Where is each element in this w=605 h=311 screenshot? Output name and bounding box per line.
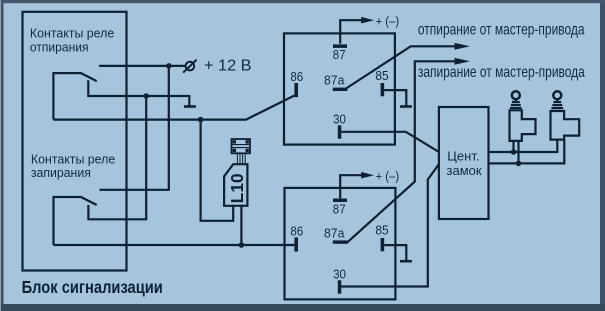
svg-text:30: 30 xyxy=(333,267,346,282)
svg-text:87а: 87а xyxy=(324,226,345,241)
svg-text:87: 87 xyxy=(333,47,346,62)
svg-text:87: 87 xyxy=(333,201,346,216)
svg-text:87а: 87а xyxy=(324,73,345,88)
svg-text:запирание от мастер-привода: запирание от мастер-привода xyxy=(418,62,585,80)
svg-text:+ (–): + (–) xyxy=(376,14,400,28)
svg-text:85: 85 xyxy=(375,223,388,238)
svg-text:30: 30 xyxy=(333,112,346,127)
svg-text:замок: замок xyxy=(447,163,482,178)
svg-text:Блок сигнализации: Блок сигнализации xyxy=(22,278,163,298)
svg-text:L10: L10 xyxy=(227,173,247,203)
svg-text:Контакты реле: Контакты реле xyxy=(31,152,115,166)
svg-text:отпирание от мастер-привода: отпирание от мастер-привода xyxy=(418,20,585,38)
svg-text:Контакты реле: Контакты реле xyxy=(30,26,114,40)
svg-text:+ (–): + (–) xyxy=(376,169,400,183)
svg-text:Цент.: Цент. xyxy=(447,148,479,163)
svg-text:отпирания: отпирания xyxy=(30,40,89,54)
svg-text:86: 86 xyxy=(290,223,303,238)
svg-text:+ 12 В: + 12 В xyxy=(204,58,252,75)
svg-text:86: 86 xyxy=(290,69,303,84)
svg-text:запирания: запирания xyxy=(31,165,91,179)
svg-text:85: 85 xyxy=(375,68,388,83)
